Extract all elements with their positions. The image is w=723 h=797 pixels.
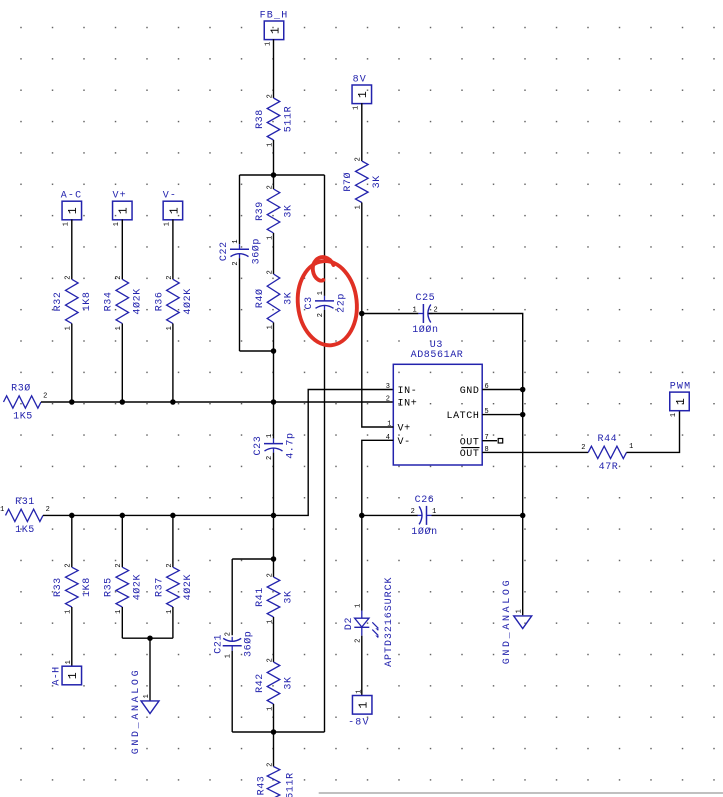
svg-text:V-: V- (398, 437, 411, 448)
wire (149, 638, 151, 701)
svg-text:1ØØn: 1ØØn (412, 324, 438, 336)
svg-text:2: 2 (46, 506, 51, 514)
wire (273, 559, 275, 577)
node junction (271, 513, 277, 519)
wire (121, 219, 123, 279)
resistor R38 (255, 94, 295, 147)
resistor R34 (104, 275, 144, 331)
node junction (271, 729, 277, 735)
svg-text:R32: R32 (53, 291, 64, 311)
svg-text:R33: R33 (53, 577, 64, 597)
resistor R43 (257, 762, 297, 797)
resistor R35 (104, 563, 144, 614)
node junction (271, 399, 277, 405)
wire (71, 515, 73, 567)
svg-text:1: 1 (515, 609, 523, 614)
svg-text:A-H: A-H (51, 666, 62, 685)
no-connect (498, 439, 503, 444)
wire (121, 607, 123, 638)
wire (71, 324, 73, 403)
svg-text:R7Ø: R7Ø (342, 172, 354, 192)
port A-H (51, 660, 81, 686)
svg-text:R31: R31 (15, 497, 35, 508)
svg-text:PWM: PWM (670, 382, 692, 393)
wire (627, 410, 680, 452)
resistor R40 (254, 270, 295, 330)
resistor R37 (154, 563, 194, 614)
wire (231, 651, 233, 732)
svg-text:1: 1 (113, 221, 121, 226)
svg-text:2: 2 (65, 563, 73, 568)
svg-text:2: 2 (266, 573, 274, 578)
svg-text:1: 1 (168, 207, 181, 215)
resistor R36 (154, 275, 194, 331)
wire (172, 515, 174, 567)
resistor R41 (255, 573, 295, 624)
node junction (120, 399, 126, 405)
ground GND_ANALOG (131, 668, 159, 755)
svg-text:U3: U3 (430, 340, 443, 351)
svg-text:R43: R43 (257, 776, 268, 796)
svg-text:C23: C23 (253, 436, 264, 456)
svg-text:GND_ANALOG: GND_ANALOG (502, 578, 513, 665)
port -8V (348, 689, 372, 729)
svg-text:3K: 3K (284, 676, 295, 689)
svg-text:8V: 8V (353, 75, 367, 86)
svg-text:C25: C25 (415, 293, 435, 304)
node junction (120, 513, 126, 519)
svg-text:2: 2 (355, 157, 363, 162)
svg-text:-8V: -8V (348, 718, 370, 729)
svg-text:2: 2 (266, 94, 274, 99)
svg-text:2: 2 (266, 270, 274, 275)
svg-text:1: 1 (0, 506, 5, 514)
svg-text:1: 1 (232, 239, 240, 244)
svg-text:2: 2 (225, 631, 233, 636)
svg-text:2: 2 (266, 762, 274, 767)
svg-text:36Øp: 36Øp (242, 631, 254, 657)
svg-text:V+: V+ (112, 191, 126, 202)
wire (273, 453, 275, 559)
wire (232, 731, 324, 733)
wire (482, 389, 523, 391)
wire (239, 175, 241, 244)
node junction (520, 387, 526, 393)
svg-text:GND_ANALOG: GND_ANALOG (131, 668, 142, 755)
wire (273, 39, 275, 98)
wire (71, 607, 73, 666)
wire (273, 323, 275, 352)
svg-text:511R: 511R (284, 106, 295, 132)
svg-text:IN+: IN+ (398, 399, 418, 410)
wire (362, 514, 418, 516)
resistor R39 (255, 185, 295, 240)
port A-C (61, 191, 83, 227)
node junction (359, 311, 365, 317)
port 8V (352, 75, 372, 111)
svg-text:OUT: OUT (460, 449, 480, 460)
wire (43, 390, 393, 516)
wire (273, 233, 275, 274)
port V- (163, 191, 183, 227)
svg-text:A-C: A-C (61, 191, 83, 202)
wire (172, 324, 174, 403)
svg-text:2: 2 (166, 563, 174, 568)
svg-text:2: 2 (411, 508, 416, 516)
wire (121, 324, 123, 403)
svg-text:R36: R36 (154, 291, 165, 311)
wire (273, 617, 275, 662)
node junction (359, 513, 365, 519)
wire (172, 219, 174, 279)
capacitor C21 (213, 631, 254, 659)
svg-text:1: 1 (65, 660, 73, 665)
LED D2 (344, 577, 395, 667)
wire (240, 174, 325, 176)
wire (273, 732, 275, 767)
svg-text:R3Ø: R3Ø (11, 383, 31, 395)
svg-text:1: 1 (358, 701, 371, 709)
capacitor C23 (253, 432, 297, 460)
resistor R33 (53, 563, 93, 614)
svg-text:R41: R41 (255, 587, 266, 607)
wire (482, 414, 523, 416)
svg-text:V-: V- (163, 191, 177, 202)
wire (361, 203, 363, 314)
svg-text:1: 1 (265, 41, 273, 46)
svg-text:1K5: 1K5 (13, 412, 33, 423)
wire (232, 558, 273, 560)
port PWM (670, 382, 692, 418)
resistor R30 (4, 383, 42, 423)
wire (324, 310, 326, 732)
svg-text:1: 1 (62, 221, 70, 226)
svg-text:4Ø2K: 4Ø2K (131, 288, 143, 314)
svg-text:OUT: OUT (460, 437, 480, 448)
node junction (69, 513, 75, 519)
svg-text:R35: R35 (104, 577, 115, 597)
svg-text:1: 1 (352, 105, 360, 110)
wire (273, 140, 275, 175)
node junction (170, 399, 176, 405)
svg-text:1ØØn: 1ØØn (411, 526, 437, 538)
wire (361, 636, 363, 696)
node junction (271, 556, 277, 562)
svg-text:4Ø2K: 4Ø2K (182, 288, 194, 314)
svg-text:R34: R34 (104, 291, 115, 311)
svg-text:1: 1 (317, 290, 325, 295)
capacitor C25 (412, 293, 438, 336)
wire (432, 514, 523, 516)
wire (482, 440, 497, 442)
svg-text:2: 2 (115, 275, 123, 280)
wire (324, 175, 326, 296)
node junction (520, 412, 526, 418)
capacitor C3 (304, 290, 348, 317)
ground GND_ANALOG (502, 578, 532, 665)
svg-text:3K: 3K (372, 175, 383, 188)
resistor R70 (342, 157, 383, 210)
svg-text:4Ø2K: 4Ø2K (131, 574, 143, 600)
wire (273, 351, 275, 439)
svg-text:1: 1 (357, 91, 370, 99)
node junction (520, 513, 526, 519)
svg-text:FB_H: FB_H (260, 11, 289, 22)
svg-text:C26: C26 (415, 495, 435, 506)
wire (361, 103, 363, 161)
svg-text:C3: C3 (304, 296, 315, 309)
svg-text:2: 2 (386, 396, 391, 404)
window edge (319, 792, 723, 794)
resistor R32 (53, 275, 93, 331)
wire (273, 704, 275, 732)
svg-text:R39: R39 (255, 201, 266, 221)
svg-text:C22: C22 (219, 241, 230, 261)
node junction (69, 399, 75, 405)
svg-text:1: 1 (269, 27, 282, 35)
svg-text:V+: V+ (398, 424, 411, 435)
wire (172, 607, 174, 638)
svg-text:1K5: 1K5 (15, 525, 35, 536)
svg-text:47R: 47R (599, 462, 619, 473)
wire (71, 219, 73, 279)
wire (362, 314, 394, 428)
svg-text:2: 2 (166, 275, 174, 280)
svg-text:1: 1 (67, 672, 80, 680)
port FB_H (260, 11, 289, 47)
svg-text:2: 2 (43, 393, 48, 401)
svg-text:2: 2 (65, 275, 73, 280)
wire (41, 401, 393, 403)
resistor R31 (6, 497, 44, 536)
svg-text:1: 1 (670, 412, 678, 417)
wire (429, 314, 523, 616)
port V+ (112, 191, 132, 227)
svg-text:2: 2 (266, 658, 274, 663)
svg-text:1: 1 (163, 221, 171, 226)
svg-text:3K: 3K (284, 292, 295, 305)
wire (362, 440, 394, 610)
resistor R44 (588, 434, 626, 473)
svg-text:1: 1 (266, 433, 274, 438)
svg-text:R38: R38 (255, 109, 266, 129)
wire (362, 313, 419, 315)
svg-text:IN-: IN- (398, 386, 418, 397)
wire (231, 559, 233, 635)
resistor R42 (255, 658, 295, 711)
svg-text:1: 1 (355, 689, 363, 694)
node junction (147, 635, 153, 641)
svg-text:AD8561AR: AD8561AR (411, 350, 464, 361)
annotation red circle (294, 257, 361, 348)
op-amp U3 AD8561AR (386, 340, 490, 465)
svg-text:1K8: 1K8 (82, 291, 93, 311)
svg-text:R42: R42 (255, 673, 266, 693)
svg-text:C21: C21 (213, 634, 224, 654)
svg-text:D2: D2 (344, 617, 355, 630)
svg-text:1: 1 (412, 306, 417, 314)
svg-text:1: 1 (675, 398, 688, 406)
node junction (271, 348, 277, 354)
node junction (271, 172, 277, 178)
capacitor C26 (411, 495, 438, 538)
svg-text:1: 1 (354, 603, 362, 608)
svg-text:1: 1 (143, 694, 151, 699)
svg-text:1: 1 (118, 207, 131, 215)
svg-text:GND: GND (460, 386, 480, 397)
svg-text:1K8: 1K8 (82, 577, 93, 597)
wire (121, 515, 123, 567)
svg-text:3K: 3K (284, 590, 295, 603)
svg-text:2: 2 (115, 563, 123, 568)
node junction (170, 513, 176, 519)
svg-text:R44: R44 (597, 434, 617, 445)
svg-text:R4Ø: R4Ø (254, 288, 266, 308)
svg-text:4.7p: 4.7p (286, 432, 297, 458)
svg-text:1: 1 (67, 207, 80, 215)
svg-text:22p: 22p (337, 293, 348, 313)
wire (122, 637, 173, 639)
svg-text:2: 2 (581, 444, 586, 452)
svg-text:APTD3216SURCK: APTD3216SURCK (384, 577, 395, 667)
svg-text:511R: 511R (285, 772, 296, 797)
svg-text:LATCH: LATCH (446, 411, 479, 422)
wire (239, 258, 241, 351)
svg-text:3: 3 (386, 383, 391, 391)
svg-text:4Ø2K: 4Ø2K (182, 574, 194, 600)
svg-text:36Øp: 36Øp (251, 238, 263, 264)
wire (482, 451, 588, 453)
wire (273, 175, 275, 189)
wire (240, 350, 274, 352)
capacitor C22 (219, 238, 263, 266)
svg-text:3K: 3K (284, 204, 295, 217)
svg-text:R37: R37 (154, 577, 165, 597)
svg-text:1: 1 (629, 443, 634, 451)
